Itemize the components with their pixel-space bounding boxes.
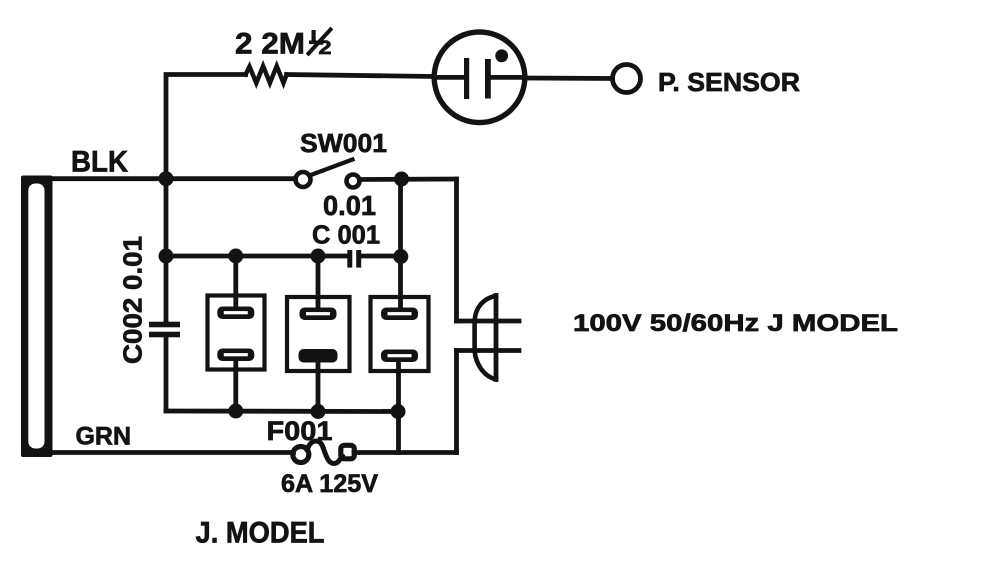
wire: middle bus right of C001	[361, 254, 401, 259]
svg-text:SW001: SW001	[300, 128, 387, 158]
socket 3 top contact plate	[381, 308, 418, 321]
svg-text:6A 125V: 6A 125V	[281, 470, 378, 498]
label 100V 50/60Hz J MODEL	[573, 310, 898, 337]
capacitor C001 plates	[347, 250, 361, 268]
label 0.01 (C001 value)	[323, 190, 376, 221]
junction: bottom bus / socket-2 lead	[311, 404, 326, 419]
socket 3 top lead (from switch junction)	[398, 179, 403, 308]
junction: middle bus / left vertical	[159, 249, 174, 264]
socket 3 bottom lead / vertical to GRN wire	[396, 362, 401, 453]
svg-text:2: 2	[319, 38, 332, 59]
power cord entry (white inner slot)	[28, 184, 44, 449]
svg-text:P. SENSOR: P. SENSOR	[658, 67, 800, 97]
junction: switch wire / socket-3 vertical	[394, 172, 409, 187]
junction: middle bus / socket-3 vertical	[393, 249, 408, 264]
switch SW001 lever	[310, 160, 353, 176]
wire: left vertical upper (BLK to C002)	[164, 179, 169, 322]
switch SW001 left contact	[296, 172, 311, 187]
terminal P.SENSOR	[613, 65, 641, 93]
sensor internal lead wires	[434, 75, 525, 80]
svg-text:C002 0.01: C002 0.01	[118, 236, 148, 364]
wire: bottom bus	[166, 409, 399, 414]
label 2 2M	[235, 28, 305, 61]
label J. MODEL	[196, 517, 325, 550]
socket 3 outline	[371, 297, 429, 371]
svg-text:F001: F001	[267, 416, 333, 446]
wire: sensor to terminal	[525, 76, 613, 81]
sensor internal capacitor plates	[464, 58, 491, 99]
AC plug body arc	[475, 296, 496, 380]
sensor element circle	[434, 32, 525, 123]
socket 2 bottom lead	[316, 362, 321, 412]
socket 1 bottom lead	[233, 361, 238, 412]
label 1/2 fraction	[309, 30, 332, 60]
junction: bottom bus / socket-1 lead	[228, 404, 243, 419]
AC plug bottom prong	[457, 348, 520, 353]
socket 2 top lead	[316, 256, 321, 308]
power cord entry (black channel body)	[21, 176, 53, 458]
wire: left vertical lower (C002 to bottom bus)	[164, 337, 169, 411]
socket 2 outline	[287, 297, 350, 371]
wire: top horizontal (left segment to resistor)	[166, 75, 246, 179]
sensor polarity dot	[495, 49, 508, 62]
svg-text:GRN: GRN	[76, 423, 132, 451]
socket 1 bottom contact plate	[217, 349, 254, 362]
wire: GRN horizontal left of fuse	[51, 450, 294, 455]
socket 1 outline	[208, 296, 265, 370]
socket 2 bottom contact plate	[299, 349, 338, 363]
AC plug face line	[494, 296, 499, 380]
svg-text:J. MODEL: J. MODEL	[196, 517, 325, 550]
switch SW001 right contact	[347, 175, 360, 188]
socket 1 top lead	[233, 256, 238, 307]
resistor R1 2.2M zigzag	[246, 66, 287, 83]
label 6A 125V	[281, 470, 378, 498]
junction: middle bus / socket-2 lead	[311, 249, 326, 264]
svg-text:2 2M: 2 2M	[235, 28, 305, 61]
svg-text:100V 50/60Hz J MODEL: 100V 50/60Hz J MODEL	[573, 310, 898, 337]
capacitor C002 plates	[149, 322, 180, 338]
svg-text:BLK: BLK	[71, 146, 128, 179]
wire: top horizontal (resistor to sensor circle)	[287, 75, 434, 77]
socket 3 bottom contact plate	[381, 350, 418, 363]
junction: middle bus / socket-1 lead	[228, 249, 243, 264]
wire: right vertical upper	[454, 179, 459, 321]
wire: right vertical lower (plug to GRN)	[454, 351, 459, 453]
wire: switch to right corner	[360, 177, 457, 182]
fuse F001 right terminal	[341, 445, 355, 459]
label C 001	[312, 220, 380, 250]
label SW001	[300, 128, 387, 158]
label C002 0.01 (rotated)	[118, 236, 148, 364]
junction: bottom bus / socket-3 lead	[391, 404, 406, 419]
label BLK	[71, 146, 128, 179]
label P. SENSOR	[658, 67, 800, 97]
label GRN	[76, 423, 132, 451]
wire: BLK horizontal	[51, 176, 296, 181]
socket 2 top contact plate	[300, 308, 337, 321]
fuse F001 element curve	[308, 441, 343, 464]
wire: middle bus left of C001	[166, 254, 349, 259]
junction: BLK / left vertical	[159, 171, 174, 186]
AC plug top prong	[457, 319, 520, 324]
wire: GRN horizontal right of fuse	[354, 450, 457, 455]
svg-text:C 001: C 001	[312, 220, 380, 250]
svg-text:0.01: 0.01	[323, 190, 376, 221]
socket 1 top contact plate	[217, 307, 254, 320]
label F001	[267, 416, 333, 446]
fuse F001 left terminal	[293, 447, 309, 463]
